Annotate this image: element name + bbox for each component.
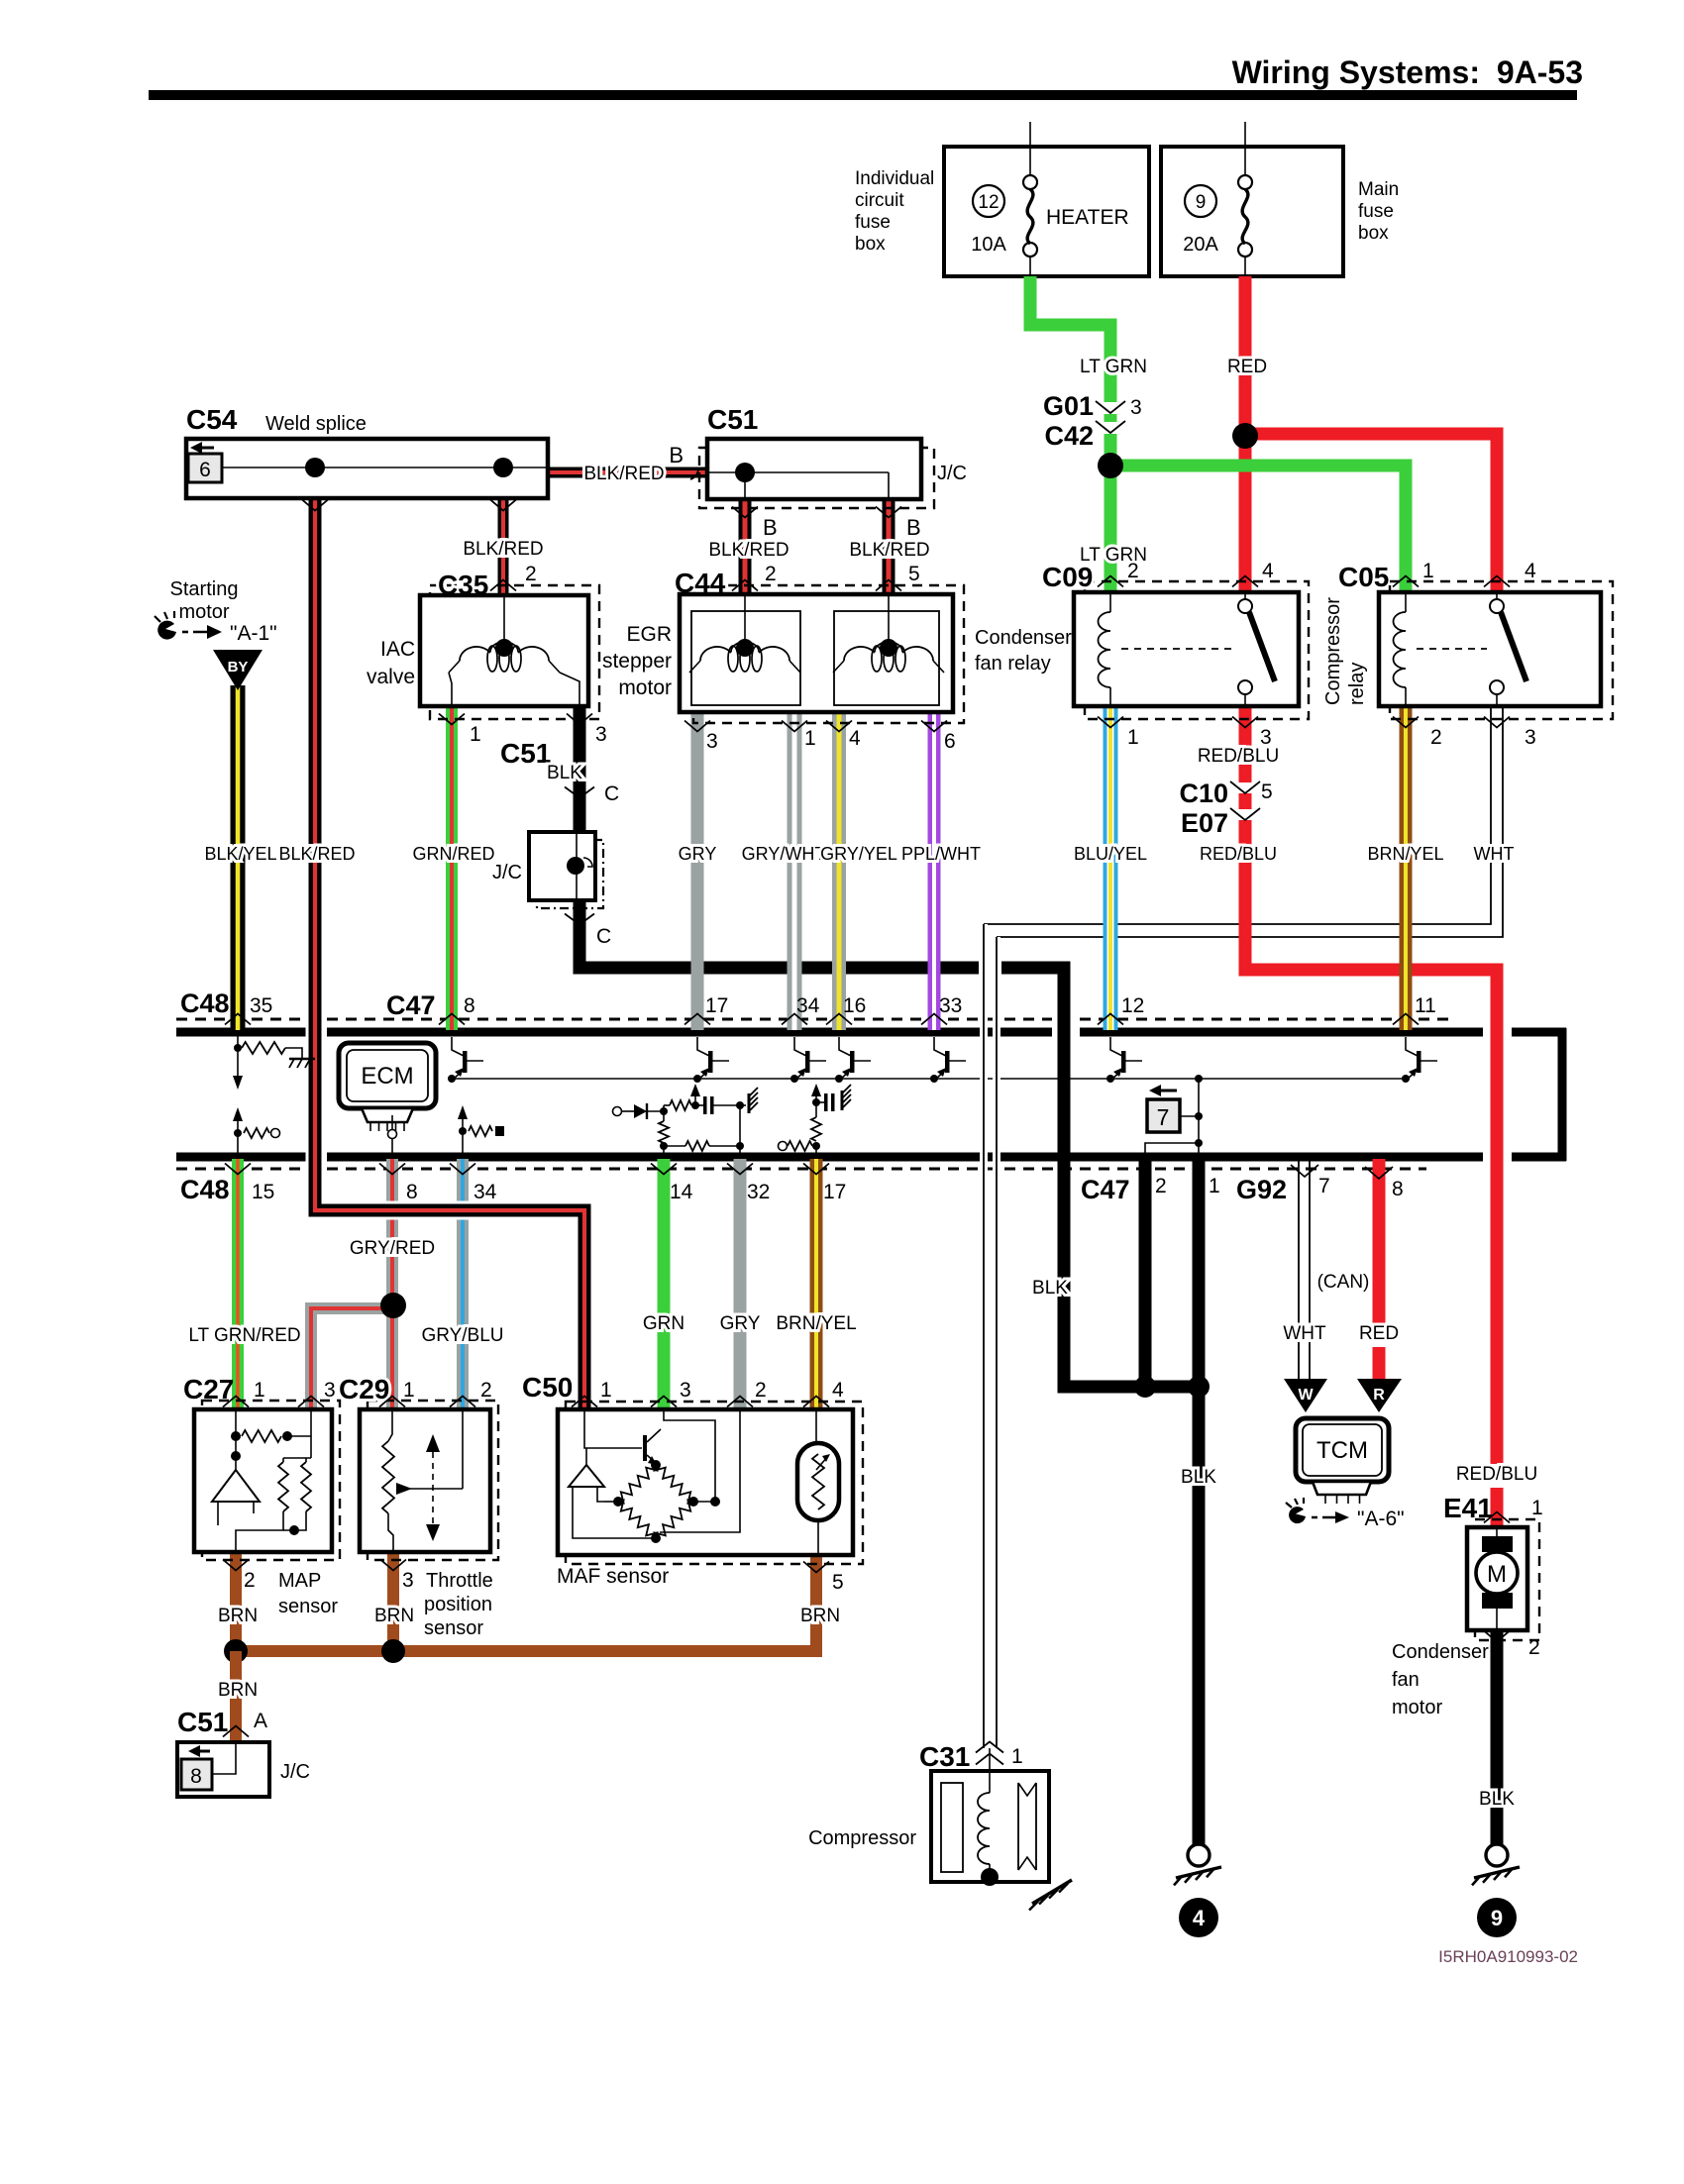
wire BRN to C51 J/C pin A [230, 1651, 242, 1742]
svg-text:HEATER: HEATER [1046, 206, 1129, 229]
svg-text:C50: C50 [522, 1372, 573, 1403]
svg-text:Throttle: Throttle [426, 1570, 493, 1592]
svg-text:fuse: fuse [855, 212, 891, 233]
svg-text:C29: C29 [339, 1374, 389, 1404]
node C51 C junction [567, 857, 584, 875]
svg-text:B: B [906, 515, 921, 540]
svg-text:C: C [596, 925, 611, 948]
wire BLK/RED link C54 to C51 [548, 468, 707, 478]
svg-text:GRY/YEL: GRY/YEL [820, 844, 897, 864]
wire LT GRN branch to C05 pin 1 [1110, 466, 1406, 594]
svg-text:17: 17 [823, 1181, 846, 1203]
svg-text:BRN/YEL: BRN/YEL [776, 1313, 856, 1334]
coil C05 [1405, 592, 1407, 612]
svg-text:8: 8 [464, 994, 475, 1017]
top rail chevrons [225, 1014, 251, 1025]
svg-text:TCM: TCM [1316, 1437, 1368, 1464]
wire BLU/YEL C09 pin 1 to C47 pin 12 [1104, 706, 1118, 1030]
svg-text:34: 34 [796, 994, 820, 1017]
svg-text:BRN: BRN [800, 1606, 840, 1626]
svg-text:C05: C05 [1338, 562, 1389, 592]
sensor connector pin labels [223, 1397, 249, 1407]
svg-text:2: 2 [1528, 1636, 1540, 1659]
svg-text:1: 1 [470, 723, 481, 746]
svg-text:WHT: WHT [1474, 844, 1515, 864]
svg-text:1: 1 [254, 1379, 265, 1402]
svg-text:4: 4 [1193, 1906, 1206, 1930]
wire PPL/WHT C44 pin 6 to C47 pin 33 [928, 712, 941, 1030]
ground at C31 case [1032, 1880, 1072, 1904]
wire BLK/YEL from starting motor to C48 pin 35 [231, 685, 246, 1030]
ECM network at pins 14/32 [663, 1146, 665, 1153]
svg-text:valve: valve [367, 666, 415, 688]
C05 pin labels [1393, 576, 1419, 587]
svg-text:BLK/RED: BLK/RED [583, 464, 664, 484]
svg-text:16: 16 [843, 994, 866, 1017]
wire BLK/RED C51 to C44 pin 5 [883, 499, 895, 595]
svg-text:7: 7 [1157, 1104, 1170, 1130]
svg-text:M: M [1487, 1561, 1507, 1588]
svg-text:4: 4 [832, 1379, 844, 1402]
C09 pin labels [1098, 576, 1123, 587]
svg-text:2: 2 [525, 563, 537, 585]
wire WHT C05 pin 3 across [984, 704, 1491, 924]
svg-text:IAC: IAC [380, 638, 415, 661]
C44 top pin chevrons [732, 580, 758, 591]
svg-text:circuit: circuit [855, 190, 904, 211]
svg-text:BRN: BRN [218, 1606, 258, 1626]
svg-text:BLK/RED: BLK/RED [708, 540, 789, 561]
wire GRY C47 pin 32 to C50 pin 2 [734, 1159, 747, 1409]
coil EGR A [691, 611, 800, 705]
svg-text:3: 3 [595, 723, 607, 746]
ECM diode branch at pin 14 [613, 1107, 622, 1116]
svg-text:3: 3 [680, 1379, 691, 1402]
fuse 12 10A HEATER [1029, 122, 1031, 175]
node BLK junction pin2 [1134, 1376, 1156, 1398]
svg-text:GRY/BLU: GRY/BLU [421, 1325, 503, 1346]
svg-text:8: 8 [1392, 1178, 1404, 1200]
svg-text:E07: E07 [1181, 808, 1228, 838]
svg-text:C47: C47 [1081, 1175, 1130, 1204]
ground 4 [1188, 1844, 1210, 1866]
svg-text:2: 2 [1430, 726, 1442, 749]
svg-text:1: 1 [1531, 1497, 1543, 1519]
svg-text:B: B [669, 443, 684, 468]
wire BLK/RED C51 to C44 pin 2 [739, 499, 752, 595]
svg-text:BRN/YEL: BRN/YEL [1367, 844, 1443, 864]
main fuse box [1161, 147, 1343, 276]
svg-text:2: 2 [765, 563, 777, 585]
transistor at C47 pin 12 [1110, 1037, 1122, 1056]
svg-text:LT GRN/RED: LT GRN/RED [188, 1325, 300, 1346]
svg-text:5: 5 [908, 563, 920, 585]
svg-text:position: position [424, 1594, 492, 1615]
svg-text:"A-6": "A-6" [1357, 1508, 1405, 1530]
TCM box [1296, 1418, 1389, 1482]
svg-text:7: 7 [1318, 1175, 1330, 1197]
svg-text:Compressor: Compressor [808, 1827, 916, 1849]
svg-text:C51: C51 [177, 1707, 228, 1737]
svg-text:MAP: MAP [278, 1570, 321, 1592]
svg-text:4: 4 [1262, 560, 1274, 582]
svg-text:BLK/RED: BLK/RED [849, 540, 929, 561]
svg-text:WHT: WHT [1283, 1323, 1326, 1344]
svg-text:8: 8 [406, 1181, 418, 1203]
svg-text:2: 2 [244, 1569, 256, 1592]
svg-text:BLK: BLK [1181, 1467, 1216, 1488]
transistor at C47 pin 34 [794, 1037, 806, 1056]
svg-text:Individual: Individual [855, 168, 934, 189]
TCM A-6 reference [1289, 1507, 1306, 1523]
svg-text:GRY/RED: GRY/RED [350, 1238, 435, 1259]
svg-text:15: 15 [252, 1181, 274, 1203]
svg-text:BLK: BLK [1479, 1789, 1515, 1810]
ECM connector top dashed line [176, 1018, 307, 1021]
ECM common emitter line [452, 1078, 1410, 1080]
node C51 junction [735, 463, 755, 482]
svg-text:4: 4 [849, 727, 861, 750]
svg-text:B: B [763, 515, 778, 540]
svg-text:motor: motor [178, 601, 229, 623]
svg-text:BY: BY [228, 659, 249, 676]
switch C05 [1496, 592, 1498, 599]
C35 bottom pin chevrons [439, 714, 465, 725]
svg-text:GRN: GRN [643, 1313, 684, 1334]
svg-text:C48: C48 [180, 988, 230, 1018]
transistor at C47 pin 17 [697, 1037, 709, 1056]
amplifier MAF [569, 1465, 604, 1487]
svg-text:motor: motor [618, 676, 672, 699]
svg-text:C47: C47 [386, 990, 436, 1020]
bottom rail chevrons [225, 1164, 251, 1175]
svg-text:RED/BLU: RED/BLU [1198, 746, 1279, 767]
svg-text:C09: C09 [1042, 562, 1093, 592]
svg-text:Starting: Starting [170, 578, 239, 600]
coil IAC valve [503, 595, 505, 643]
ECM connector bottom dashed line [176, 1168, 307, 1171]
throttle position sensor C29 [368, 1401, 498, 1560]
wire WHT (CAN) G92 pin 7 to TCM [1298, 1159, 1300, 1381]
node BRN junction at C27 [224, 1639, 248, 1663]
svg-text:34: 34 [474, 1181, 497, 1203]
svg-text:C54: C54 [186, 404, 238, 435]
svg-text:6: 6 [199, 459, 211, 481]
svg-text:33: 33 [939, 994, 962, 1017]
svg-text:BLK/RED: BLK/RED [278, 844, 355, 864]
switch C09 [1244, 592, 1246, 599]
svg-text:RED: RED [1227, 357, 1267, 377]
svg-text:11: 11 [1415, 994, 1436, 1017]
svg-text:BLK/RED: BLK/RED [463, 539, 543, 560]
header rule [149, 90, 1577, 100]
svg-text:ECM: ECM [361, 1063, 413, 1090]
svg-text:C31: C31 [919, 1741, 970, 1772]
node RED junction [1232, 423, 1258, 449]
connector BY (to starting motor) [213, 650, 263, 690]
box 7 output [1147, 1099, 1180, 1132]
svg-text:2: 2 [1155, 1175, 1167, 1197]
svg-text:BLK: BLK [1032, 1278, 1068, 1299]
svg-text:1: 1 [804, 727, 816, 750]
C35 pin 2 chevron [490, 580, 516, 591]
svg-text:5: 5 [832, 1571, 844, 1594]
MAF pin3 line [664, 1409, 715, 1502]
svg-text:3: 3 [402, 1569, 414, 1592]
svg-text:32: 32 [747, 1181, 770, 1203]
svg-text:fan: fan [1392, 1669, 1420, 1691]
wire BRN C27 pin 2 to splice [230, 1552, 242, 1651]
svg-text:1: 1 [600, 1379, 612, 1402]
svg-text:1: 1 [1422, 560, 1434, 582]
svg-text:GRN/RED: GRN/RED [412, 844, 494, 864]
svg-text:G92: G92 [1236, 1175, 1287, 1204]
wire RED branch to C05 pin 4 [1245, 434, 1497, 594]
svg-text:J/C: J/C [937, 463, 967, 484]
svg-text:A: A [254, 1710, 267, 1732]
wire RED from fuse 9 [1239, 276, 1252, 594]
svg-text:5: 5 [1261, 780, 1273, 803]
svg-text:J/C: J/C [280, 1761, 310, 1783]
svg-text:motor: motor [1392, 1697, 1442, 1718]
wire BRN/YEL C47 pin 17b to C50 pin 4 [810, 1159, 823, 1409]
wire BLK bus from C35 pin 3 via J/C to ground 4 [574, 706, 586, 832]
transistor at C47 pin 33 [934, 1037, 946, 1056]
ECM box [339, 1043, 436, 1108]
svg-text:1: 1 [1209, 1175, 1220, 1197]
MAF thermistor oval [797, 1443, 839, 1520]
svg-text:3: 3 [1130, 396, 1142, 419]
svg-text:8: 8 [190, 1765, 202, 1788]
svg-text:2: 2 [480, 1379, 492, 1402]
condenser fan relay C09 [1085, 581, 1309, 719]
svg-text:BLK/YEL: BLK/YEL [204, 844, 276, 864]
E41 pin labels [1484, 1512, 1510, 1523]
svg-text:fuse: fuse [1358, 201, 1394, 222]
node C31 coil to case [981, 1868, 999, 1886]
svg-text:stepper: stepper [602, 650, 672, 673]
svg-text:Compressor: Compressor [1322, 597, 1344, 705]
svg-text:9A-53: 9A-53 [1497, 54, 1583, 90]
node BLK junction pin1 [1188, 1376, 1210, 1398]
svg-text:2: 2 [1127, 560, 1139, 582]
ECM internal lines to C47 pins 2/1 and box 7 [1198, 1079, 1200, 1155]
svg-text:GRY: GRY [679, 844, 717, 864]
wire BLK E41 pin 2 to ground 9 [1491, 1630, 1504, 1844]
wire GRY/RED branch to C27 pin 3 [311, 1308, 392, 1409]
svg-text:12: 12 [978, 192, 999, 213]
svg-text:C51: C51 [707, 404, 758, 435]
wire BLK/RED C54 to C35 pin 2 [498, 498, 509, 595]
wire RED (CAN) G92 pin 8 to TCM [1373, 1159, 1386, 1324]
svg-text:W: W [1298, 1387, 1314, 1404]
svg-text:RED: RED [1359, 1323, 1399, 1344]
wire BLK C47 pin 2 down [1139, 1159, 1152, 1387]
TCM R triangle [1357, 1379, 1402, 1412]
svg-text:E41: E41 [1443, 1493, 1493, 1523]
wire BRN/YEL C05 pin 2 to C47 pin 11 [1400, 704, 1413, 1030]
svg-text:1: 1 [1011, 1745, 1023, 1768]
svg-text:17: 17 [705, 994, 728, 1017]
svg-text:PPL/WHT: PPL/WHT [901, 844, 981, 864]
svg-text:4: 4 [1525, 560, 1536, 582]
svg-text:RED/BLU: RED/BLU [1200, 844, 1277, 864]
transistor at C47 pin 11 [1406, 1037, 1418, 1056]
ECM contact at C47 pin 8b [391, 1139, 393, 1153]
C51 A connector label [223, 1726, 249, 1737]
ground 9 [1486, 1844, 1508, 1866]
svg-text:C10: C10 [1179, 779, 1228, 808]
ECM box right edge [1558, 1028, 1567, 1161]
wire GRN/RED C35 pin 1 to C47 pin 8 [446, 706, 458, 1030]
svg-text:MAF sensor: MAF sensor [557, 1565, 669, 1588]
svg-text:10A: 10A [971, 234, 1006, 256]
svg-text:BRN: BRN [374, 1606, 414, 1626]
transistor at C47 pin 8 [452, 1037, 464, 1056]
svg-text:sensor: sensor [278, 1596, 338, 1617]
wire GRY/RED C47 pin 8b to junction [386, 1159, 398, 1305]
wire GRY/BLU C47 pin 34b to C29 pin 2 [457, 1159, 469, 1409]
wire LT GRN/RED C48 pin 15 to C27 pin 1 [232, 1159, 244, 1409]
transistor at C47 pin 16 [839, 1037, 851, 1056]
fuse 9 20A [1244, 122, 1246, 175]
wire BLK/RED C54 down through rails to C50 pin 1 [315, 498, 584, 1409]
svg-text:9: 9 [1196, 192, 1207, 213]
svg-text:BLU/YEL: BLU/YEL [1074, 844, 1147, 864]
svg-text:3: 3 [324, 1379, 336, 1402]
wire BRN bus splice [236, 1555, 816, 1651]
svg-text:BRN: BRN [218, 1680, 258, 1701]
svg-text:9: 9 [1491, 1906, 1503, 1930]
svg-text:6: 6 [944, 730, 956, 753]
wire GRY/RED junction to C29 pin 1 [386, 1305, 398, 1409]
bridge resistors MAF [655, 1465, 693, 1504]
svg-text:GRY: GRY [720, 1313, 761, 1334]
ECM pull-up at C47 pin 34b [462, 1131, 464, 1153]
svg-text:(CAN): (CAN) [1317, 1272, 1370, 1293]
coil EGR B [834, 611, 939, 705]
svg-text:2: 2 [755, 1379, 767, 1402]
ECM network at pin 17b [815, 1146, 817, 1153]
svg-text:LT GRN: LT GRN [1080, 357, 1147, 377]
wire WHT down to compressor C31 pin 1 [980, 924, 988, 1748]
svg-text:20A: 20A [1183, 234, 1218, 256]
MAF sensor C50 [566, 1402, 863, 1564]
ECM ground resistor at C48 pin 35 [237, 1036, 239, 1048]
svg-text:fan relay: fan relay [975, 653, 1051, 675]
svg-text:Condenser: Condenser [975, 627, 1072, 649]
svg-text:3: 3 [1525, 726, 1536, 749]
wire BLK C47 pin 1 down to ground 4 [1193, 1159, 1206, 1844]
svg-text:C: C [604, 782, 619, 805]
svg-text:RED/BLU: RED/BLU [1456, 1464, 1537, 1485]
svg-text:12: 12 [1121, 994, 1144, 1017]
wire LT GRN junction to C09 pin 2 [1105, 462, 1117, 594]
IAC valve C35 [430, 585, 599, 719]
individual circuit fuse box [944, 147, 1149, 276]
wire RED/BLU C09 pin 3 to C10/E07 [1239, 704, 1252, 782]
svg-text:box: box [1358, 223, 1389, 244]
svg-text:J/C: J/C [492, 862, 522, 884]
C51 C chevrons [565, 787, 594, 798]
svg-text:Wiring Systems:: Wiring Systems: [1232, 54, 1480, 90]
transistor MAF [643, 1435, 647, 1461]
svg-text:14: 14 [670, 1181, 693, 1203]
wire LT GRN from fuse 12 [1030, 276, 1110, 402]
svg-text:"A-1": "A-1" [230, 622, 277, 645]
svg-text:1: 1 [403, 1379, 415, 1402]
C44 bottom pin chevrons [684, 721, 710, 732]
svg-text:R: R [1373, 1387, 1385, 1404]
svg-text:G01: G01 [1043, 391, 1094, 421]
svg-text:sensor: sensor [424, 1617, 483, 1639]
svg-text:relay: relay [1346, 663, 1368, 705]
ECM connector C48/C47 top rail [176, 1028, 307, 1037]
wire GRY/WHT C44 pin 1 to C47 pin 34 [788, 712, 802, 1030]
svg-text:1: 1 [1127, 726, 1139, 749]
wire GRN C47 pin 14 to C50 pin 3 [658, 1159, 671, 1409]
C31 pin 1 label [976, 1742, 1003, 1753]
C54 pin chevrons [302, 500, 328, 511]
svg-text:I5RH0A910993-02: I5RH0A910993-02 [1438, 1947, 1578, 1966]
C51 exit chevrons B/B [732, 507, 758, 518]
node BRN junction at C29 [381, 1639, 405, 1663]
svg-text:C48: C48 [180, 1175, 230, 1204]
wire GRY/YEL C44 pin 4 to C47 pin 16 [832, 712, 846, 1030]
svg-text:Weld splice: Weld splice [265, 413, 367, 435]
svg-text:GRY/WHT: GRY/WHT [742, 844, 826, 864]
wire BRN C29 pin 3 to splice [387, 1552, 399, 1651]
svg-text:EGR: EGR [626, 623, 672, 646]
TCM W triangle [1284, 1379, 1327, 1412]
wire RED/BLU down to E41 pin 1 [1480, 970, 1497, 1464]
svg-text:C42: C42 [1044, 421, 1094, 451]
svg-text:box: box [855, 234, 886, 255]
MAF pin2 line [660, 1409, 740, 1532]
svg-text:Main: Main [1358, 179, 1399, 200]
ECM connector C48/C47 bottom rail [176, 1153, 307, 1162]
EGR stepper motor C44 [693, 585, 964, 723]
node C54 splice 2 [493, 458, 513, 477]
svg-text:35: 35 [250, 994, 272, 1017]
svg-text:C51: C51 [500, 738, 551, 769]
node C54 splice 1 [305, 458, 325, 477]
svg-text:Condenser: Condenser [1392, 1641, 1489, 1663]
wire GRY C44 pin 3 to C47 pin 17 [691, 712, 704, 1030]
ECM pull-up at C48 pin 15 [237, 1133, 239, 1153]
node GRY/RED junction [380, 1293, 406, 1318]
svg-text:BLK: BLK [547, 763, 582, 783]
coil C09 [1109, 592, 1111, 612]
wire RED/BLU E07 down and across [1245, 820, 1497, 970]
node LT GRN junction C42 [1098, 453, 1123, 478]
svg-text:3: 3 [706, 730, 718, 753]
